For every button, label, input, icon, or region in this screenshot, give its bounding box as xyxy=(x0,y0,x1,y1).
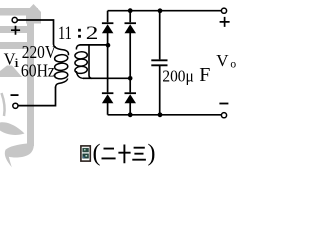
output terminal + circle (top right) xyxy=(221,8,226,13)
diode D2 (top right) xyxy=(125,22,137,24)
junction dot: secondary top / left branch xyxy=(106,43,111,48)
diode D1 (top left) xyxy=(102,22,114,24)
svg-text:11: 11 xyxy=(58,22,72,43)
watermark band C xyxy=(0,42,34,49)
watermark J-hook xyxy=(5,130,34,167)
svg-text:o: o xyxy=(230,59,236,71)
bridge right branch wires xyxy=(129,11,131,115)
diode D4 (bottom right) xyxy=(125,92,137,94)
bridge left branch wires xyxy=(107,11,109,115)
wire: secondary bottom to bridge right mid node xyxy=(83,77,130,79)
svg-text:): ) xyxy=(148,141,156,167)
caption char san (three) xyxy=(132,148,146,160)
plus sign (output) xyxy=(220,17,230,27)
top rail (+ output) xyxy=(108,10,222,12)
caption char shi (ten) xyxy=(118,145,130,164)
transformer primary winding xyxy=(54,44,69,55)
watermark swoosh xyxy=(0,122,25,135)
plus sign (input) xyxy=(11,26,20,35)
caption glyph tu (figure) xyxy=(81,146,90,161)
bottom rail (- output) xyxy=(108,114,222,116)
wire: primary bottom to input minus terminal xyxy=(18,87,55,106)
svg-text:F: F xyxy=(199,64,210,86)
capacitor C1 wires xyxy=(159,11,161,115)
svg-text:V: V xyxy=(216,51,229,70)
caption char er (two) xyxy=(102,149,116,159)
input terminal + circle (top left) xyxy=(12,17,17,22)
svg-text:60Hz: 60Hz xyxy=(21,60,55,80)
output terminal - circle (bottom right) xyxy=(221,113,226,118)
svg-text:200μ: 200μ xyxy=(162,67,194,86)
input terminal - circle (bottom left) xyxy=(13,103,18,108)
wire: input + to transformer primary top xyxy=(17,20,53,45)
junction dot: capacitor / bottom rail xyxy=(158,112,163,117)
watermark left-edge arc xyxy=(2,93,5,116)
junction dot: secondary bottom / right branch xyxy=(128,76,133,81)
transformer secondary winding xyxy=(76,45,80,50)
junction dot: capacitor / top rail xyxy=(158,8,163,13)
junction dot: right branch / top rail xyxy=(128,8,133,13)
wire: secondary top to bridge left mid node xyxy=(80,44,109,46)
minus sign (input) xyxy=(11,94,19,96)
diode D3 (bottom left) xyxy=(102,92,114,94)
watermark wedge near Vi xyxy=(0,66,22,78)
watermark arrowhead xyxy=(26,4,41,24)
svg-text:i: i xyxy=(14,55,20,70)
watermark vertical bar xyxy=(27,13,34,146)
watermark band A xyxy=(0,8,38,16)
watermark band B xyxy=(0,26,28,33)
minus sign (output) xyxy=(219,103,228,105)
svg-text:220V: 220V xyxy=(22,42,56,62)
capacitor C1 plates xyxy=(151,60,167,65)
svg-text:2: 2 xyxy=(86,22,99,43)
svg-text:(: ( xyxy=(93,141,101,167)
junction dot: right branch / bottom rail xyxy=(128,112,133,117)
